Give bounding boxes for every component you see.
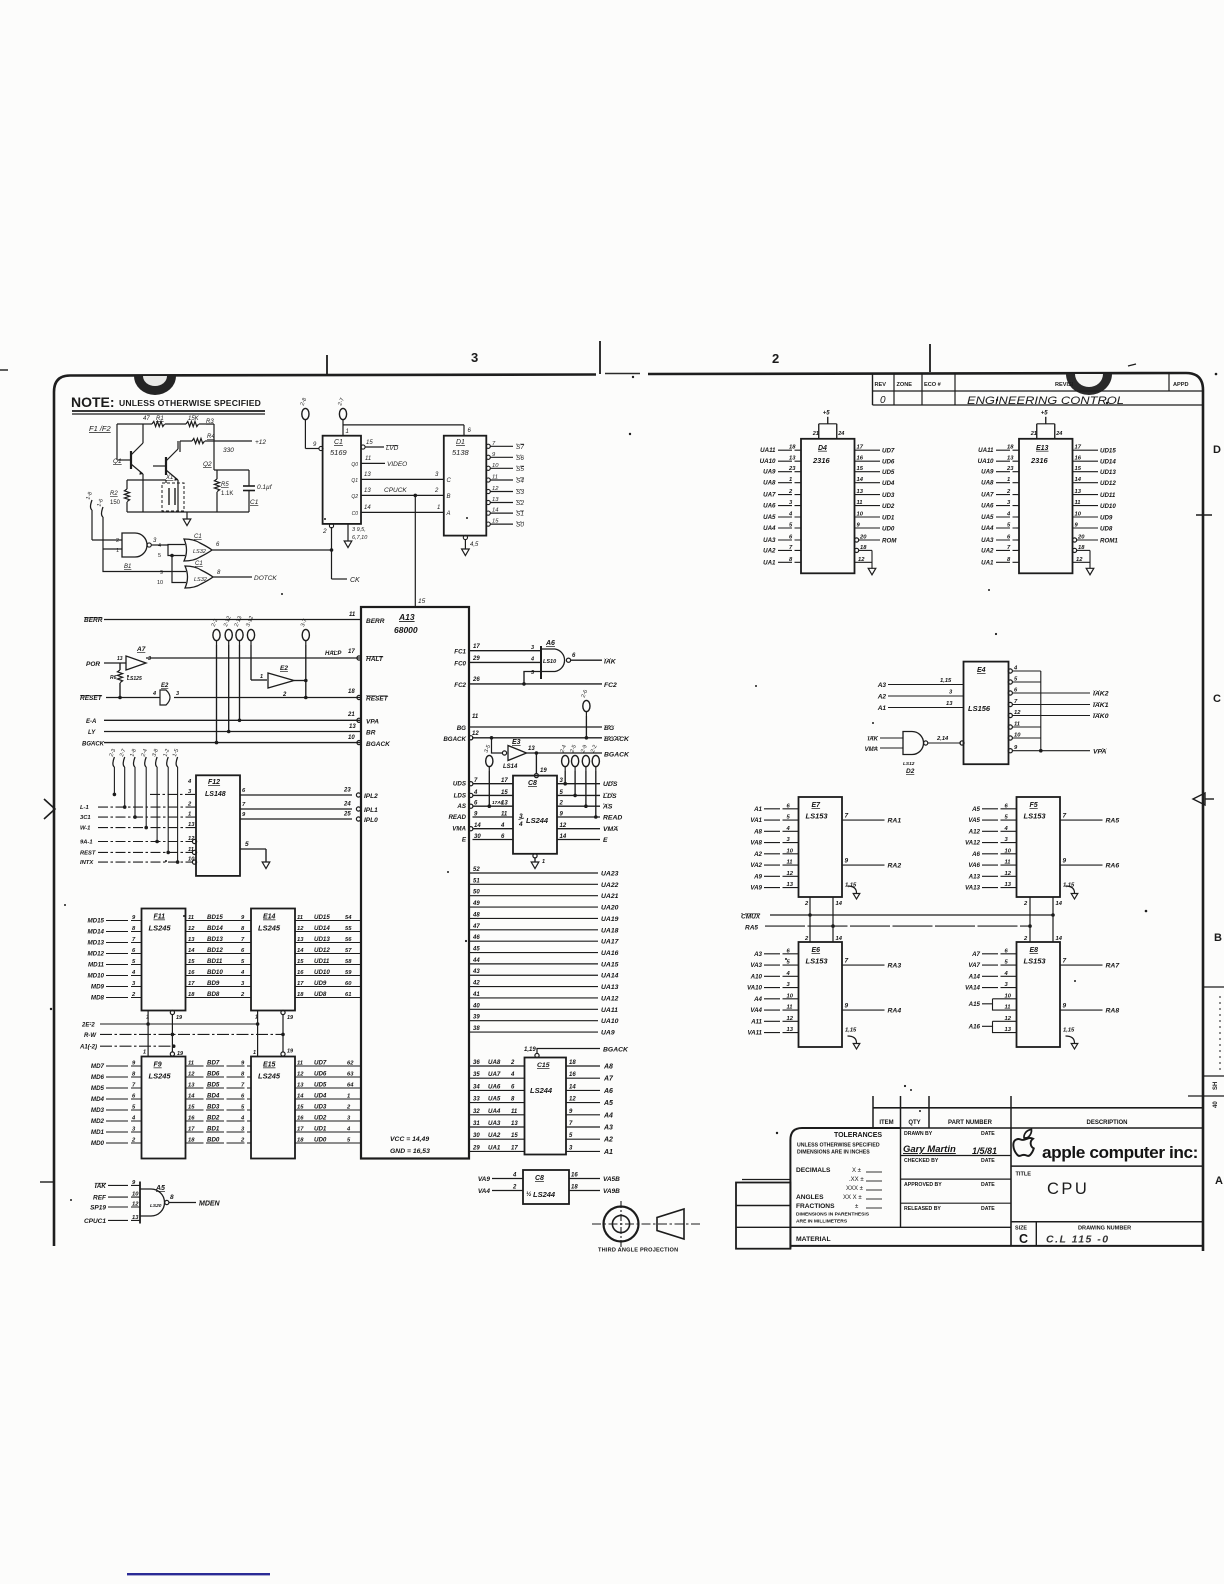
svg-text:UD8: UD8 bbox=[1100, 526, 1113, 533]
svg-text:LS245: LS245 bbox=[149, 1072, 172, 1081]
NOTE underline bbox=[72, 410, 265, 412]
svg-text:LVD: LVD bbox=[386, 445, 399, 452]
ic D1 5138 bbox=[444, 436, 487, 536]
svg-text:X ±: X ± bbox=[852, 1168, 862, 1174]
svg-text:13: 13 bbox=[787, 882, 794, 888]
svg-text:BD13: BD13 bbox=[207, 936, 223, 943]
svg-text:C1: C1 bbox=[250, 499, 259, 506]
svg-text:VA1: VA1 bbox=[750, 817, 762, 824]
svg-text:VA13: VA13 bbox=[965, 885, 981, 892]
svg-text:E: E bbox=[603, 837, 608, 844]
wire +12 bbox=[205, 440, 252, 442]
apple computer logo bbox=[1011, 1165, 1202, 1167]
svg-text:51: 51 bbox=[473, 878, 480, 884]
svg-text:UD5: UD5 bbox=[882, 469, 895, 476]
vertical E14 pin19 bbox=[282, 1015, 284, 1053]
svg-text:5138: 5138 bbox=[452, 448, 470, 457]
svg-text:UD7: UD7 bbox=[314, 1060, 327, 1067]
svg-text:4,5: 4,5 bbox=[470, 542, 479, 548]
svg-text:9: 9 bbox=[1063, 858, 1067, 865]
resistor R1 bbox=[152, 421, 165, 426]
svg-text:Q2: Q2 bbox=[203, 461, 212, 468]
svg-text:29: 29 bbox=[472, 656, 480, 662]
capacitor C1 0.1uf bbox=[243, 485, 255, 487]
ic F12 LS148 bbox=[196, 775, 240, 876]
svg-text:UA9: UA9 bbox=[601, 1030, 615, 1037]
svg-text:+5: +5 bbox=[1041, 410, 1049, 416]
svg-text:A9: A9 bbox=[753, 873, 762, 880]
D1 ground bbox=[463, 535, 467, 539]
pullup LDS bbox=[572, 755, 579, 766]
svg-text:4: 4 bbox=[512, 1173, 517, 1179]
svg-text:LS153: LS153 bbox=[1024, 812, 1047, 821]
svg-text:A7: A7 bbox=[603, 1076, 614, 1083]
svg-text:C.L 115 -0: C.L 115 -0 bbox=[1046, 1234, 1110, 1246]
ic E6 LS153 bbox=[799, 942, 843, 1047]
svg-text:DIMENSIONS ARE IN INCHES: DIMENSIONS ARE IN INCHES bbox=[797, 1150, 870, 1156]
svg-text:UA4: UA4 bbox=[488, 1108, 501, 1115]
left border tick bbox=[40, 1181, 54, 1183]
svg-text:1,15: 1,15 bbox=[845, 1028, 857, 1034]
svg-text:7: 7 bbox=[845, 958, 849, 965]
svg-text:A7: A7 bbox=[136, 646, 146, 653]
svg-text:C1: C1 bbox=[334, 439, 343, 446]
svg-text:68000: 68000 bbox=[394, 625, 418, 635]
E7 select verticals bbox=[809, 897, 811, 942]
svg-text:UA1: UA1 bbox=[981, 559, 994, 566]
svg-text:CK: CK bbox=[350, 577, 360, 584]
svg-text:ENGINEERING CONTROL: ENGINEERING CONTROL bbox=[967, 395, 1124, 407]
hook 1-8 bbox=[91, 500, 93, 510]
svg-text:BGACK: BGACK bbox=[443, 736, 466, 743]
svg-text:D1: D1 bbox=[456, 439, 465, 446]
svg-text:UA11: UA11 bbox=[601, 1007, 618, 1014]
svg-text:C: C bbox=[1213, 693, 1221, 705]
svg-text:BGACK: BGACK bbox=[604, 752, 630, 759]
svg-text:2: 2 bbox=[510, 1060, 515, 1066]
svg-text:LS245: LS245 bbox=[149, 924, 172, 933]
svg-text:POR: POR bbox=[86, 661, 100, 668]
svg-text:13: 13 bbox=[132, 1215, 139, 1221]
svg-text:UA12: UA12 bbox=[601, 995, 619, 1002]
svg-text:BD2: BD2 bbox=[207, 1115, 220, 1122]
svg-text:BD9: BD9 bbox=[207, 980, 220, 987]
svg-text:E7: E7 bbox=[812, 802, 822, 809]
svg-text:A10: A10 bbox=[750, 973, 763, 980]
ic E8 LS153 bbox=[1017, 942, 1061, 1047]
svg-text:LS20: LS20 bbox=[150, 1203, 162, 1209]
svg-text:UD9: UD9 bbox=[1100, 515, 1113, 522]
svg-text:ARE IN MILLIMETERS: ARE IN MILLIMETERS bbox=[796, 1219, 848, 1225]
svg-text:24: 24 bbox=[343, 802, 351, 808]
svg-text:RA5: RA5 bbox=[745, 925, 758, 932]
svg-text:150: 150 bbox=[110, 500, 121, 506]
svg-text:S5: S5 bbox=[516, 466, 524, 473]
svg-text:11: 11 bbox=[501, 812, 508, 818]
svg-text:IAK: IAK bbox=[95, 1183, 108, 1190]
svg-text:2: 2 bbox=[512, 1185, 517, 1191]
svg-text:E2: E2 bbox=[280, 665, 288, 672]
svg-text:UA3: UA3 bbox=[981, 537, 994, 544]
svg-text:FRACTIONS: FRACTIONS bbox=[796, 1203, 835, 1210]
pullup AS2 bbox=[582, 755, 589, 766]
svg-text:UA4: UA4 bbox=[981, 525, 994, 532]
svg-text:VA9: VA9 bbox=[750, 885, 762, 892]
svg-text:LS244: LS244 bbox=[526, 816, 549, 825]
svg-text:VA14: VA14 bbox=[965, 985, 981, 992]
svg-text:39: 39 bbox=[473, 1015, 480, 1021]
ic E4 LS156 bbox=[964, 662, 1009, 765]
svg-text:18: 18 bbox=[571, 1185, 578, 1191]
svg-text:1,15: 1,15 bbox=[940, 678, 952, 684]
svg-text:A2: A2 bbox=[753, 851, 762, 858]
svg-text:MD5: MD5 bbox=[91, 1085, 105, 1092]
svg-text:E13: E13 bbox=[1036, 445, 1049, 452]
svg-text:REVISI: REVISI bbox=[1055, 382, 1074, 388]
svg-text:A1: A1 bbox=[753, 806, 762, 813]
svg-text:UA7: UA7 bbox=[488, 1071, 501, 1078]
svg-text:1: 1 bbox=[347, 1094, 350, 1100]
svg-text:10: 10 bbox=[1005, 848, 1012, 854]
svg-text:UA6: UA6 bbox=[981, 503, 994, 510]
svg-text:.XX ±: .XX ± bbox=[849, 1177, 864, 1183]
svg-text:12: 12 bbox=[787, 1016, 794, 1022]
svg-text:THIRD ANGLE PROJECTION: THIRD ANGLE PROJECTION bbox=[598, 1248, 678, 1254]
svg-text:A13: A13 bbox=[398, 612, 415, 622]
svg-text:13: 13 bbox=[787, 1027, 794, 1033]
ic D4 ROM 2316 bbox=[801, 439, 855, 574]
svg-text:2: 2 bbox=[772, 351, 779, 366]
svg-text:LS245: LS245 bbox=[258, 1072, 281, 1081]
svg-text:15K: 15K bbox=[188, 416, 200, 422]
hook 1-6 bbox=[102, 507, 104, 517]
svg-text:LS244: LS244 bbox=[530, 1086, 553, 1095]
svg-text:UA15: UA15 bbox=[601, 961, 619, 968]
svg-text:VA2: VA2 bbox=[750, 862, 762, 869]
svg-text:UA1: UA1 bbox=[488, 1144, 501, 1151]
svg-text:A1: A1 bbox=[877, 705, 887, 712]
svg-text:BD12: BD12 bbox=[207, 947, 223, 954]
svg-text:IPL2: IPL2 bbox=[364, 793, 378, 800]
F12 input wires bbox=[150, 793, 196, 795]
svg-text:BD14: BD14 bbox=[207, 925, 223, 932]
svg-text:Q2: Q2 bbox=[351, 494, 358, 500]
ic A13 68000 CPU bbox=[361, 607, 469, 1159]
svg-text:9: 9 bbox=[845, 858, 849, 865]
svg-text:MDEN: MDEN bbox=[199, 1201, 221, 1208]
svg-text:UD4: UD4 bbox=[882, 480, 895, 487]
svg-text:16: 16 bbox=[571, 1173, 578, 1179]
svg-text:A11: A11 bbox=[750, 1018, 762, 1025]
svg-text:9A-1: 9A-1 bbox=[80, 840, 93, 846]
svg-text:SH: SH bbox=[1213, 1082, 1219, 1090]
ic F9 LS245 bbox=[142, 1057, 186, 1159]
svg-text:3: 3 bbox=[148, 656, 151, 662]
svg-text:BD8: BD8 bbox=[207, 991, 220, 998]
svg-text:1: 1 bbox=[143, 1050, 146, 1056]
svg-text:UD7: UD7 bbox=[882, 448, 895, 455]
svg-text:13: 13 bbox=[511, 1121, 518, 1127]
svg-text:VA7: VA7 bbox=[968, 962, 980, 969]
wire HALT bbox=[146, 657, 361, 659]
svg-text:VIDEO: VIDEO bbox=[387, 461, 407, 468]
svg-text:2: 2 bbox=[282, 692, 287, 698]
ic C1 5169 bbox=[323, 436, 361, 524]
svg-text:BGACK: BGACK bbox=[82, 742, 105, 748]
resistor R2 150 bbox=[124, 489, 129, 502]
svg-text:54: 54 bbox=[345, 915, 352, 921]
svg-text:VPA: VPA bbox=[1093, 749, 1107, 756]
svg-text:R4: R4 bbox=[207, 434, 215, 440]
svg-text:UDS: UDS bbox=[603, 781, 618, 788]
svg-text:LS153: LS153 bbox=[1024, 957, 1047, 966]
svg-text:1,15: 1,15 bbox=[1063, 883, 1075, 889]
svg-text:DATE: DATE bbox=[981, 1182, 995, 1188]
svg-text:MD7: MD7 bbox=[91, 1063, 105, 1070]
svg-text:MD14: MD14 bbox=[87, 929, 104, 936]
ic E7 LS153 bbox=[799, 797, 843, 897]
svg-text:40: 40 bbox=[472, 1003, 480, 1009]
svg-text:12: 12 bbox=[132, 1202, 139, 1208]
svg-text:46: 46 bbox=[472, 935, 480, 941]
svg-text:31: 31 bbox=[473, 1121, 480, 1127]
svg-text:UD10: UD10 bbox=[314, 969, 330, 976]
svg-text:0.1µf: 0.1µf bbox=[257, 484, 273, 491]
svg-text:13: 13 bbox=[528, 746, 535, 752]
svg-text:CHECKED BY: CHECKED BY bbox=[904, 1158, 939, 1164]
svg-text:11: 11 bbox=[349, 612, 356, 618]
svg-text:E15: E15 bbox=[263, 1062, 276, 1069]
sheet cell dashed text bbox=[1219, 996, 1221, 1070]
svg-text:LS153: LS153 bbox=[806, 957, 829, 966]
svg-text:UNLESS OTHERWISE SPECIFIED: UNLESS OTHERWISE SPECIFIED bbox=[119, 398, 261, 408]
svg-text:21: 21 bbox=[347, 712, 355, 718]
svg-text:3C1: 3C1 bbox=[80, 815, 91, 821]
svg-text:15: 15 bbox=[366, 440, 373, 446]
svg-text:LS244: LS244 bbox=[533, 1190, 556, 1199]
svg-text:S1: S1 bbox=[516, 511, 524, 518]
punch hole right bbox=[1066, 374, 1112, 395]
svg-text:UA3: UA3 bbox=[763, 537, 776, 544]
svg-text:2E-2: 2E-2 bbox=[81, 1023, 95, 1029]
third angle projection symbol bbox=[604, 1207, 639, 1242]
svg-text:47: 47 bbox=[143, 416, 150, 422]
svg-text:60: 60 bbox=[345, 981, 352, 987]
punch hole left bbox=[134, 376, 176, 395]
svg-text:LS32: LS32 bbox=[193, 549, 206, 555]
svg-text:19: 19 bbox=[177, 1051, 184, 1057]
svg-text:R6: R6 bbox=[110, 675, 117, 681]
svg-text:BD3: BD3 bbox=[207, 1104, 220, 1111]
svg-text:UA17: UA17 bbox=[601, 939, 620, 946]
svg-text:9: 9 bbox=[845, 1003, 849, 1010]
svg-text:UD2: UD2 bbox=[882, 503, 895, 510]
svg-text:R2: R2 bbox=[110, 491, 118, 497]
svg-text:BD0: BD0 bbox=[207, 1137, 220, 1144]
svg-text:UA14: UA14 bbox=[601, 973, 619, 980]
svg-text:UD9: UD9 bbox=[314, 980, 327, 987]
svg-text:S0: S0 bbox=[516, 522, 524, 529]
svg-text:R5: R5 bbox=[221, 482, 229, 488]
svg-text:L-1: L-1 bbox=[80, 805, 89, 811]
svg-text:E4: E4 bbox=[977, 667, 986, 674]
svg-text:E-A: E-A bbox=[86, 719, 96, 725]
svg-text:10: 10 bbox=[132, 1192, 139, 1198]
svg-text:VA5: VA5 bbox=[968, 817, 980, 824]
svg-text:DRAWN BY: DRAWN BY bbox=[904, 1131, 933, 1137]
svg-text:VA3: VA3 bbox=[750, 962, 762, 969]
svg-text:UD11: UD11 bbox=[314, 958, 330, 965]
svg-text:VMA: VMA bbox=[865, 747, 878, 753]
svg-text:FC2: FC2 bbox=[454, 682, 466, 689]
wire CK net bbox=[212, 549, 332, 551]
svg-text:13: 13 bbox=[117, 656, 123, 662]
svg-text:BD15: BD15 bbox=[207, 914, 223, 921]
svg-text:UA19: UA19 bbox=[601, 916, 619, 923]
svg-text:2,14: 2,14 bbox=[936, 736, 949, 742]
svg-text:13: 13 bbox=[946, 701, 953, 707]
C1 pin 2 bottom bbox=[329, 524, 333, 528]
svg-text:DECIMALS: DECIMALS bbox=[796, 1167, 831, 1174]
svg-text:17A5: 17A5 bbox=[492, 800, 504, 806]
svg-text:UA11: UA11 bbox=[760, 447, 776, 454]
svg-text:1: 1 bbox=[253, 1050, 256, 1056]
svg-text:10: 10 bbox=[787, 848, 794, 854]
svg-text:A5: A5 bbox=[603, 1100, 613, 1107]
pullup UDS bbox=[562, 755, 569, 766]
svg-text:RA4: RA4 bbox=[888, 1008, 902, 1015]
svg-text:Q0: Q0 bbox=[351, 462, 358, 468]
svg-text:AS: AS bbox=[602, 804, 613, 811]
svg-text:64: 64 bbox=[347, 1083, 354, 1089]
inverter E3 LS14 bbox=[492, 738, 503, 753]
svg-text:FC0: FC0 bbox=[454, 661, 466, 668]
svg-text:VA12: VA12 bbox=[965, 840, 981, 847]
svg-text:UD13: UD13 bbox=[314, 936, 330, 943]
svg-text:RA7: RA7 bbox=[1106, 963, 1121, 970]
svg-text:UD10: UD10 bbox=[1100, 503, 1116, 510]
svg-text:F1 /F2: F1 /F2 bbox=[89, 424, 112, 433]
svg-text:LDS: LDS bbox=[603, 793, 617, 800]
svg-text:14: 14 bbox=[364, 505, 371, 511]
svg-text:47: 47 bbox=[472, 924, 480, 930]
svg-text:A5: A5 bbox=[155, 1185, 165, 1192]
svg-text:UA16: UA16 bbox=[601, 950, 619, 957]
svg-text:A13: A13 bbox=[968, 873, 981, 880]
zone tick top mid bbox=[599, 341, 601, 374]
svg-text:UA2: UA2 bbox=[488, 1132, 501, 1139]
svg-text:11: 11 bbox=[472, 714, 479, 720]
revision table bbox=[872, 374, 874, 406]
svg-text:ROM1: ROM1 bbox=[1100, 538, 1118, 545]
resistor pulldown R6 bbox=[117, 670, 122, 683]
svg-text:12: 12 bbox=[569, 1097, 576, 1103]
svg-text:DATE: DATE bbox=[981, 1206, 995, 1212]
svg-text:10: 10 bbox=[787, 993, 794, 999]
svg-text:1,15: 1,15 bbox=[845, 883, 857, 889]
svg-text:A2: A2 bbox=[877, 694, 887, 701]
svg-text:F9: F9 bbox=[154, 1062, 162, 1069]
svg-text:A5: A5 bbox=[971, 806, 980, 813]
svg-text:UD1: UD1 bbox=[314, 1126, 327, 1133]
svg-text:TITLE: TITLE bbox=[1016, 1172, 1032, 1178]
svg-text:12: 12 bbox=[472, 731, 479, 737]
svg-text:MD10: MD10 bbox=[87, 973, 104, 980]
svg-text:7: 7 bbox=[1063, 958, 1067, 965]
wire osc rails bbox=[127, 479, 166, 481]
svg-text:DATE: DATE bbox=[981, 1131, 995, 1137]
svg-text:A1: A1 bbox=[603, 1149, 613, 1156]
svg-text:LDS: LDS bbox=[454, 792, 467, 799]
svg-text:56: 56 bbox=[345, 937, 352, 943]
svg-text:UNLESS OTHERWISE SPECIFIED: UNLESS OTHERWISE SPECIFIED bbox=[797, 1143, 880, 1149]
svg-text:UD14: UD14 bbox=[314, 925, 330, 932]
svg-text:UA11: UA11 bbox=[978, 447, 994, 454]
svg-text:REF: REF bbox=[93, 1195, 107, 1202]
svg-text:MD3: MD3 bbox=[91, 1107, 105, 1114]
zone tick top left bbox=[326, 355, 328, 375]
svg-text:RA3: RA3 bbox=[888, 963, 902, 970]
svg-text:RA2: RA2 bbox=[888, 863, 902, 870]
svg-text:2: 2 bbox=[434, 488, 439, 494]
ic F5 LS153 bbox=[1017, 797, 1061, 897]
svg-text:1,19: 1,19 bbox=[524, 1047, 536, 1053]
svg-text:17: 17 bbox=[511, 1145, 518, 1151]
vertical F11 pin1 bbox=[147, 1011, 149, 1057]
svg-text:UD3: UD3 bbox=[314, 1104, 327, 1111]
svg-text:C1: C1 bbox=[194, 534, 202, 540]
svg-text:VA4: VA4 bbox=[478, 1188, 491, 1195]
gate A5 bbox=[139, 1182, 141, 1224]
svg-text:11: 11 bbox=[1005, 860, 1011, 866]
svg-text:13: 13 bbox=[364, 472, 371, 478]
svg-text:MD8: MD8 bbox=[91, 995, 105, 1002]
E4 output pins bbox=[1008, 669, 1012, 673]
svg-text:UD3: UD3 bbox=[882, 492, 895, 499]
C8 ground bbox=[533, 854, 537, 858]
svg-text:7: 7 bbox=[845, 813, 849, 820]
svg-text:DESCRIPTION: DESCRIPTION bbox=[1086, 1120, 1127, 1126]
svg-text:B1: B1 bbox=[124, 564, 131, 570]
svg-text:62: 62 bbox=[347, 1061, 354, 1067]
svg-text:61: 61 bbox=[345, 992, 351, 998]
C1 ground bbox=[347, 524, 349, 541]
svg-text:14: 14 bbox=[836, 901, 843, 907]
svg-text:UD1: UD1 bbox=[882, 515, 895, 522]
svg-text:UA23: UA23 bbox=[601, 871, 619, 878]
svg-text:E6: E6 bbox=[812, 947, 821, 954]
svg-text:UD4: UD4 bbox=[314, 1093, 327, 1100]
buffer E2 second bbox=[268, 673, 294, 688]
ic C8b half LS244 bbox=[523, 1170, 569, 1204]
svg-text:43: 43 bbox=[472, 969, 480, 975]
svg-text:3 9,5,: 3 9,5, bbox=[352, 527, 366, 533]
vertical E14 pin1 bbox=[257, 1011, 259, 1057]
svg-text:UA21: UA21 bbox=[601, 893, 619, 900]
svg-text:34: 34 bbox=[473, 1084, 480, 1090]
svg-text:+5: +5 bbox=[823, 410, 831, 416]
svg-text:UD12: UD12 bbox=[314, 947, 330, 954]
blue pen mark bbox=[127, 1573, 270, 1575]
svg-text:57: 57 bbox=[345, 948, 352, 954]
svg-text:RA5: RA5 bbox=[1106, 818, 1120, 825]
svg-text:25: 25 bbox=[343, 812, 351, 818]
svg-text:LS156: LS156 bbox=[968, 704, 991, 713]
svg-text:19: 19 bbox=[176, 1015, 183, 1021]
D1 output pins S7-S0 bbox=[486, 444, 490, 448]
svg-text:BD1: BD1 bbox=[207, 1126, 220, 1133]
svg-text:14: 14 bbox=[836, 936, 843, 942]
